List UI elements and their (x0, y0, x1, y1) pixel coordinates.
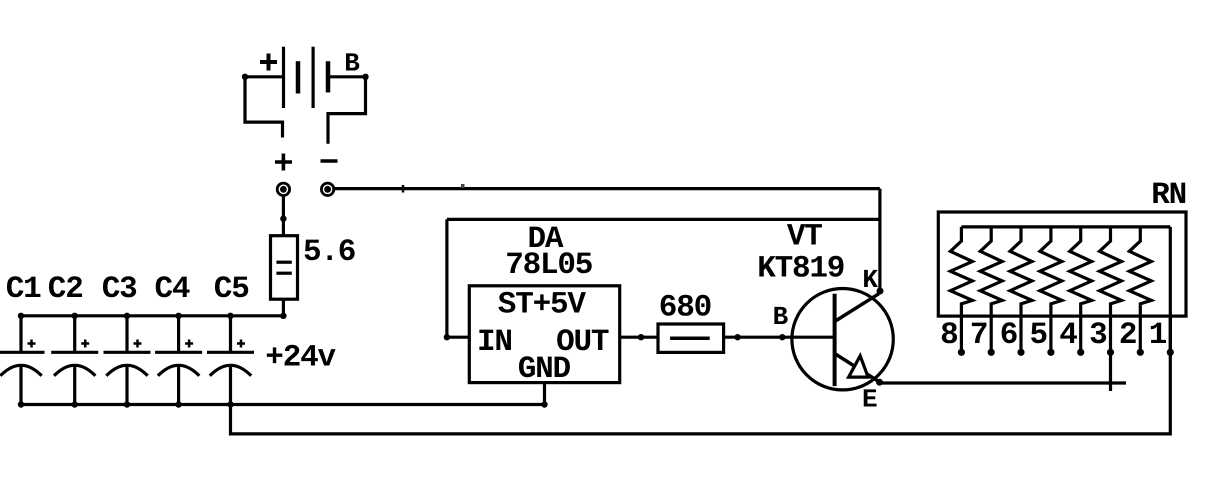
svg-text:7: 7 (970, 318, 987, 353)
fuse inner line 2 (276, 272, 291, 275)
battery B plate long left (282, 47, 285, 108)
node OUT junction (638, 334, 644, 340)
svg-text:C4: C4 (155, 272, 190, 307)
wire battery positive top (245, 75, 284, 78)
wire collector drop vertical (878, 189, 881, 291)
terminal minus symbol (321, 159, 338, 163)
wire battery negative lead (328, 77, 366, 144)
fuse inner line 1 (276, 261, 291, 264)
transistor emitter line (835, 354, 880, 383)
wire emitter to RN pin3 (880, 381, 1126, 384)
svg-text:2: 2 (1119, 318, 1136, 353)
svg-text:C5: C5 (214, 272, 249, 307)
svg-text:4: 4 (1059, 318, 1077, 353)
svg-text:1: 1 (1149, 318, 1167, 353)
RN pin 7 lead (990, 316, 993, 352)
wire IN riser (445, 219, 448, 337)
wire battery negative top (330, 75, 366, 78)
wire C5 to ground bus (231, 352, 1171, 434)
svg-text:RN: RN (1151, 178, 1186, 213)
node before base (779, 334, 785, 340)
svg-text:B: B (344, 48, 360, 78)
node battery negative (362, 74, 368, 80)
node IN junction (444, 334, 450, 340)
RN pin 8 lead (960, 316, 963, 352)
RN pin 5 lead (1049, 316, 1052, 352)
svg-text:C3: C3 (102, 272, 137, 307)
RN pin 6 lead (1019, 316, 1022, 352)
RN resistor element pin2 (1129, 227, 1151, 316)
capacitor C1 (0, 313, 45, 408)
terminal plus symbol (275, 154, 292, 171)
voltage regulator DA 78L05 box (469, 286, 619, 383)
capacitors C1..C5 (0, 313, 254, 408)
RN resistor element pin3 (1100, 227, 1122, 316)
RN pin 3 drop to emitter wire (1109, 352, 1112, 391)
svg-text:6: 6 (1000, 318, 1017, 353)
battery B plate long right (312, 47, 315, 108)
svg-text:78L05: 78L05 (505, 248, 592, 283)
node emitter (876, 379, 883, 386)
svg-text:IN: IN (477, 325, 512, 360)
capacitor C3 (104, 313, 151, 408)
RN pin 2 lead (1139, 316, 1142, 352)
capacitor C2 (51, 313, 98, 408)
RN pin 4 lead (1079, 316, 1082, 352)
svg-text:5.6: 5.6 (303, 235, 355, 270)
tick small gray (461, 184, 465, 188)
transistor collector line (835, 294, 879, 322)
node battery positive (242, 74, 248, 80)
transistor emitter arrow triangle (849, 356, 869, 377)
terminal socket minus (321, 183, 333, 195)
svg-text:8: 8 (940, 318, 957, 353)
svg-text:C2: C2 (48, 272, 83, 307)
RN pin 1 lead (1169, 316, 1172, 352)
wire fuse to rail (282, 299, 285, 316)
svg-text:3: 3 (1089, 318, 1107, 353)
svg-text:C1: C1 (6, 272, 41, 307)
RN pin 3 lead (1109, 316, 1112, 352)
transistor VT KT819 circle (792, 289, 893, 390)
wire minus terminal to collector drop (335, 187, 880, 190)
RN common right drop to pin1 (1169, 227, 1172, 352)
svg-text:KT819: KT819 (757, 251, 844, 286)
svg-text:+24v: +24v (265, 340, 336, 375)
wire 680 to base (724, 336, 835, 339)
node collector (877, 288, 884, 295)
svg-text:K: K (862, 265, 878, 295)
svg-text:680: 680 (659, 290, 711, 325)
node fuse-rail junction (280, 313, 286, 319)
resistor network RN box (938, 212, 1186, 316)
node after 680 (734, 334, 740, 340)
fuse FU 5.6 body (271, 236, 298, 300)
svg-text:VT: VT (787, 220, 822, 255)
wire +24v top rail (21, 314, 284, 317)
capacitor C4 (155, 313, 202, 408)
battery B plate short right (326, 61, 331, 92)
resistor R 680 body (658, 324, 724, 352)
battery B plate short left (296, 61, 301, 93)
svg-text:B: B (773, 302, 789, 332)
RN resistor zigzags (950, 227, 1151, 316)
svg-text:GND: GND (518, 352, 571, 387)
RN resistor element pin5 (1040, 227, 1062, 316)
wire plus terminal to fuse (282, 196, 285, 236)
RN resistor element pin6 (1010, 227, 1032, 316)
wire OUT pin (620, 336, 658, 339)
label battery plus (260, 54, 277, 71)
RN resistor element pin7 (980, 227, 1002, 316)
node on plus wire (280, 216, 286, 222)
terminal socket plus (277, 183, 289, 195)
wire IN pin (447, 336, 469, 339)
svg-text:5: 5 (1030, 318, 1047, 353)
RN resistor element pin4 (1070, 227, 1092, 316)
tick on wire (402, 185, 405, 193)
wire GND pin (543, 383, 546, 405)
wire top horizontal to collector drop (447, 218, 880, 221)
capacitor C5 (207, 313, 254, 408)
svg-text:E: E (862, 384, 877, 414)
svg-text:ST+5V: ST+5V (498, 287, 587, 322)
RN common bus (961, 225, 1170, 228)
RN resistor element pin8 (950, 227, 972, 316)
resistor 680 inner line (670, 336, 710, 340)
wire 0v bottom rail (21, 403, 545, 406)
transistor base bar (833, 294, 837, 386)
wire battery positive lead (245, 77, 283, 138)
node GND junction (541, 401, 547, 407)
